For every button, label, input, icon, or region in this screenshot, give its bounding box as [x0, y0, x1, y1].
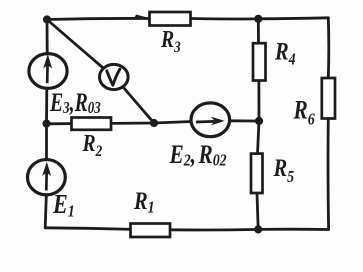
wire bottom left (corner to R1)	[45, 228, 130, 230]
wire diagonal lower (voltmeter to mid node)	[124, 88, 155, 124]
source E1	[28, 160, 66, 195]
svg-text:R6: R6	[293, 97, 315, 129]
svg-text:R1: R1	[133, 187, 155, 217]
svg-text:E2,R02: E2,R02	[169, 141, 227, 170]
wire bottom right (junction to corner)	[258, 228, 328, 231]
arrow on top wire	[135, 15, 149, 18]
wire right vertical lower (R6 to bottom corner)	[327, 119, 330, 230]
resistor R3	[150, 12, 191, 26]
node mid-center	[150, 119, 158, 127]
wire mid-right junction to R5	[258, 121, 260, 154]
resistor R4	[253, 43, 266, 80]
wire R1 to bottom junction	[170, 228, 258, 231]
wire left vertical (mid junction to E1)	[45, 124, 48, 160]
node top-mid	[254, 15, 262, 23]
svg-text:R5: R5	[273, 154, 295, 186]
resistor R5	[251, 154, 263, 193]
source E2	[191, 103, 230, 137]
wire left vertical bottom (E1 to corner)	[45, 196, 46, 228]
wire left vertical mid (E3 to mid junction)	[45, 89, 48, 124]
node top-left	[43, 15, 51, 23]
resistor R6	[322, 78, 335, 119]
node bottom	[254, 225, 262, 233]
svg-text:R4: R4	[274, 38, 296, 69]
svg-text:R2: R2	[82, 129, 103, 160]
wire diagonal upper (top junction to voltmeter)	[47, 20, 103, 69]
wire mid vertical top (top junction to R4)	[257, 19, 260, 43]
voltmeter V	[100, 64, 129, 89]
svg-text:E3,R03: E3,R03	[49, 87, 101, 117]
svg-text:R3: R3	[160, 25, 181, 56]
resistor R1	[131, 224, 171, 238]
wire top-left to R3	[47, 18, 148, 19]
wire right vertical upper (corner to R6)	[327, 18, 330, 78]
wire R4 to mid-right junction	[257, 81, 260, 122]
wire R5 to bottom junction	[257, 193, 258, 229]
wire R2 to mid node	[111, 122, 154, 125]
wire middle (mid junction to R2)	[47, 122, 72, 125]
wire mid node to E2	[154, 122, 192, 124]
node mid-right	[255, 117, 263, 125]
wire R3 to top-right corner	[191, 18, 328, 19]
svg-text:E1: E1	[52, 190, 75, 221]
node mid-left	[42, 120, 50, 128]
wire left vertical top (junction to E3)	[46, 20, 49, 54]
resistor R2	[72, 118, 112, 130]
wire E2 to mid-right junction	[229, 119, 259, 122]
source E3	[29, 54, 67, 89]
